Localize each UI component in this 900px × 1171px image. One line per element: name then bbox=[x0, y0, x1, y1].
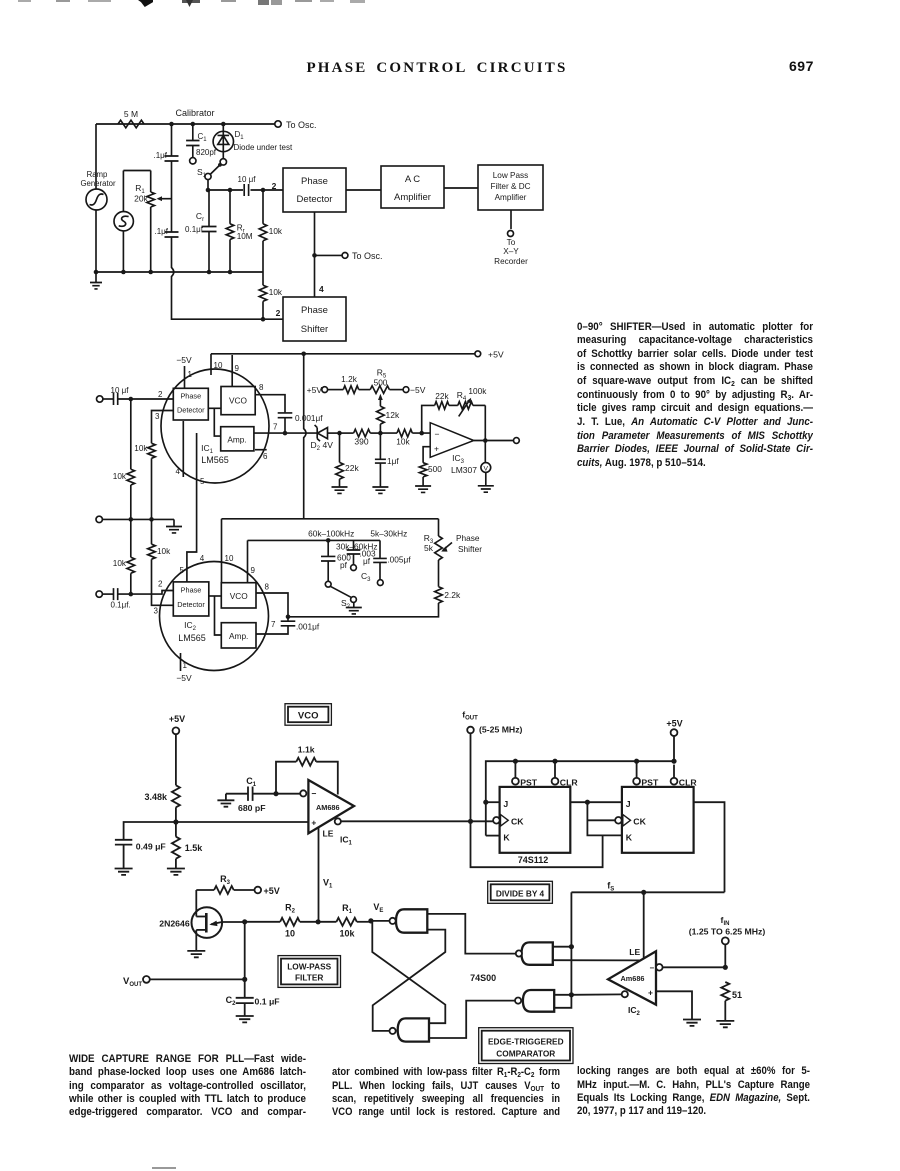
svg-text:−: − bbox=[435, 429, 440, 439]
ground (mid wire) bbox=[166, 519, 182, 533]
svg-text:74S112: 74S112 bbox=[518, 855, 549, 865]
svg-text:LM565: LM565 bbox=[201, 455, 229, 465]
svg-text:AM686: AM686 bbox=[316, 803, 340, 812]
svg-text:R2: R2 bbox=[285, 903, 296, 915]
wire + input to ground bbox=[656, 991, 701, 1026]
meter V bbox=[478, 441, 494, 493]
node rail junctions bbox=[513, 759, 518, 764]
node junction rail to IC2 supply bbox=[301, 352, 306, 357]
svg-text:6: 6 bbox=[263, 452, 268, 461]
svg-text:+: + bbox=[311, 818, 316, 828]
wire fs line bbox=[571, 891, 724, 893]
svg-text:D1: D1 bbox=[235, 130, 245, 141]
wire CK2 from vertical bbox=[587, 819, 614, 821]
node junction top rail at .1uf branch bbox=[169, 122, 174, 127]
terminal +5V (middle schematic) bbox=[475, 350, 504, 360]
gate G2 74S00 (bottom-left) bbox=[390, 1018, 430, 1041]
header: running title bbox=[0, 60, 887, 77]
svg-text:9: 9 bbox=[235, 364, 240, 373]
wire emitter to C2 bbox=[244, 922, 246, 998]
svg-text:LE: LE bbox=[323, 829, 334, 839]
svg-text:2: 2 bbox=[272, 181, 277, 191]
svg-text:22k: 22k bbox=[345, 463, 359, 473]
block Low Pass Filter & DC Amplifier bbox=[478, 165, 543, 210]
svg-text:Diode under test: Diode under test bbox=[234, 143, 293, 152]
label box DIVIDE BY 4 bbox=[488, 881, 553, 903]
op-amp U IC1 LM565 envelope circle bbox=[161, 369, 269, 483]
svg-text:10k: 10k bbox=[269, 288, 283, 297]
svg-text:2N2646: 2N2646 bbox=[159, 919, 190, 929]
wire comparator output to CK bbox=[341, 820, 493, 822]
wire J input FF1 bbox=[486, 801, 500, 803]
terminal input (lower channel) bbox=[96, 591, 102, 597]
svg-text:Generator: Generator bbox=[80, 179, 116, 188]
LE output bubble bbox=[335, 818, 341, 824]
svg-text:390: 390 bbox=[354, 437, 368, 447]
node junction top rail at C1 bbox=[191, 122, 196, 127]
svg-text:V1: V1 bbox=[323, 878, 333, 890]
resistor 3.48k bbox=[144, 734, 179, 822]
svg-text:Cr: Cr bbox=[196, 211, 204, 223]
caption column 2 bbox=[0, 0, 1, 1]
+ input bubble bbox=[622, 991, 628, 997]
capacitor 10uf coupling bbox=[238, 175, 257, 197]
block Phase Detector bbox=[283, 168, 346, 212]
wire G3 output to comparator bbox=[553, 959, 640, 961]
gate G4 74S00 (bottom-right) bbox=[515, 990, 554, 1012]
label box EDGE-TRIGGERED COMPARATOR bbox=[479, 1028, 573, 1064]
svg-text:−: − bbox=[312, 789, 317, 799]
svg-text:fS: fS bbox=[607, 881, 614, 893]
op-amp IC3 LM307 bbox=[430, 423, 477, 475]
svg-text:0.001μf: 0.001μf bbox=[295, 414, 323, 423]
svg-text:74S00: 74S00 bbox=[470, 973, 496, 983]
svg-text:VCO: VCO bbox=[229, 396, 248, 406]
svg-text:0.49 μF: 0.49 μF bbox=[136, 842, 166, 852]
capacitor .1uf (lower) bbox=[154, 227, 178, 237]
svg-text:1.5k: 1.5k bbox=[185, 843, 204, 853]
terminal input (upper channel) bbox=[97, 396, 103, 402]
svg-text:10k: 10k bbox=[113, 559, 127, 568]
svg-text:Ramp: Ramp bbox=[87, 170, 108, 179]
svg-text:20k: 20k bbox=[134, 194, 148, 204]
svg-text:CLR: CLR bbox=[679, 777, 698, 787]
svg-text:10k: 10k bbox=[157, 547, 171, 556]
svg-text:Low Pass: Low Pass bbox=[493, 171, 529, 180]
svg-text:D2: D2 bbox=[311, 440, 321, 452]
capacitor C1 820pf bbox=[186, 124, 217, 164]
svg-text:CK: CK bbox=[511, 816, 524, 826]
svg-text:10k: 10k bbox=[269, 227, 283, 236]
svg-text:.005μf: .005μf bbox=[387, 555, 411, 565]
flip-flop FF1 74S112 bbox=[493, 787, 570, 853]
svg-text:Phase: Phase bbox=[301, 176, 328, 187]
wire fin input bbox=[663, 966, 726, 968]
pin 8 wire IC2 bbox=[256, 583, 288, 617]
svg-text:+: + bbox=[648, 988, 653, 998]
block VCO (IC1) bbox=[221, 387, 255, 415]
node junction 10k top bbox=[261, 188, 266, 193]
svg-text:LE: LE bbox=[629, 947, 640, 957]
svg-text:VCO: VCO bbox=[298, 711, 319, 722]
resistor R3 to +5V bbox=[196, 874, 279, 896]
input bubble (latch input) bbox=[656, 964, 663, 971]
wire VE to G1 bbox=[371, 920, 390, 922]
wire calibrator branch down bbox=[171, 161, 173, 232]
svg-text:IC2: IC2 bbox=[184, 620, 197, 632]
wire input to IC1 pin 2 bbox=[118, 398, 174, 400]
svg-text:0.1 μF: 0.1 μF bbox=[255, 997, 280, 1007]
capacitor .001uf (IC2) bbox=[256, 617, 320, 634]
switch S2 bbox=[330, 586, 362, 614]
svg-text:4: 4 bbox=[200, 554, 205, 563]
svg-text:.001μf: .001μf bbox=[296, 622, 320, 632]
svg-text:1: 1 bbox=[188, 370, 193, 379]
node junction inverting input bbox=[419, 431, 424, 436]
svg-text:.1μf: .1μf bbox=[153, 151, 167, 160]
svg-text:2: 2 bbox=[158, 390, 163, 399]
wire S1 to phase detector input bbox=[208, 179, 283, 190]
wire to inverting input bubble bbox=[276, 793, 300, 795]
diode D1 (diode under test) bbox=[213, 124, 293, 165]
svg-text:Recorder: Recorder bbox=[494, 257, 528, 266]
node junction 10k2 bottom bbox=[261, 317, 266, 322]
node junction below S1 bbox=[206, 188, 211, 193]
resistor R1 10k bbox=[318, 903, 371, 939]
wire G4 bracket bbox=[554, 995, 571, 1008]
pin 9 wire IC2 bbox=[248, 540, 256, 582]
capacitor C2 0.1uF bbox=[226, 995, 280, 1022]
resistor 1.5k bbox=[167, 822, 203, 875]
svg-text:1μf: 1μf bbox=[387, 456, 399, 466]
node junction Q/K2 bbox=[585, 800, 590, 805]
wire +5V / -5V bias line bbox=[307, 385, 344, 395]
svg-text:Amp.: Amp. bbox=[229, 631, 248, 641]
terminal To Osc. (lower) bbox=[342, 251, 382, 261]
svg-text:A C: A C bbox=[405, 174, 420, 185]
svg-text:C1: C1 bbox=[246, 776, 257, 788]
op-amp U IC2 LM565 envelope circle bbox=[160, 562, 269, 671]
block A C Amplifier bbox=[381, 166, 444, 208]
svg-text:LM307: LM307 bbox=[451, 465, 477, 475]
svg-text:CLR: CLR bbox=[560, 777, 579, 787]
svg-text:10k: 10k bbox=[396, 437, 410, 447]
resistor 51 bbox=[716, 982, 742, 1027]
resistor 2.2k bbox=[288, 587, 461, 617]
svg-text:7: 7 bbox=[273, 423, 278, 432]
svg-text:1.2k: 1.2k bbox=[341, 374, 358, 384]
wire LPF to X-Y recorder terminal bbox=[510, 210, 512, 229]
node junction cap/pin7 bbox=[283, 431, 288, 436]
svg-text:K: K bbox=[503, 833, 510, 843]
svg-text:C1: C1 bbox=[198, 132, 208, 143]
terminal -5V bbox=[403, 385, 426, 395]
node junction pin8/2.2k bbox=[286, 615, 291, 620]
resistor 10k to op-amp bbox=[380, 429, 430, 446]
svg-text:IC2: IC2 bbox=[628, 1005, 641, 1017]
svg-text:10M: 10M bbox=[237, 232, 253, 241]
wire to + input of AM686 bbox=[176, 821, 309, 823]
svg-text:J: J bbox=[626, 799, 631, 809]
diode D2 4V zener bbox=[311, 425, 340, 452]
capacitor 600pf bbox=[321, 540, 351, 587]
pin 3 wire IC1 bbox=[152, 411, 174, 444]
svg-text:Shifter: Shifter bbox=[458, 544, 482, 554]
svg-text:4: 4 bbox=[176, 467, 181, 476]
ground (bus) bbox=[90, 272, 102, 289]
svg-text:1: 1 bbox=[183, 661, 188, 670]
svg-text:8: 8 bbox=[265, 583, 270, 592]
node junction fOUT/CK bbox=[468, 819, 473, 824]
capacitor 0.1uf input bbox=[102, 588, 130, 609]
node junction top rail at D1 bbox=[221, 122, 226, 127]
svg-text:8: 8 bbox=[259, 383, 264, 392]
resistor 22k to ground bbox=[332, 433, 360, 493]
node junction after D2 bbox=[337, 431, 342, 436]
caption column 1 bbox=[0, 0, 1, 1]
svg-text:S1: S1 bbox=[197, 167, 207, 179]
svg-text:X–Y: X–Y bbox=[503, 247, 519, 256]
svg-text:K: K bbox=[626, 833, 633, 843]
pin 8 wire + capacitor 0.001uf (IC1) bbox=[255, 383, 323, 433]
wire FF1 Q to FF2 J bbox=[570, 801, 622, 803]
pin 6 stub IC1 bbox=[255, 450, 268, 461]
svg-text:10: 10 bbox=[214, 361, 223, 370]
wire G1 output to G3 bbox=[427, 914, 516, 954]
svg-text:To: To bbox=[507, 238, 516, 247]
internal wire PD to VCO (IC2) bbox=[209, 595, 222, 597]
capacitor C1 680pF bbox=[217, 776, 276, 813]
wire fOUT drop and feedback bbox=[471, 733, 603, 867]
switch S1 bbox=[197, 163, 222, 180]
wire V1 from LE bbox=[318, 828, 320, 922]
svg-text:7: 7 bbox=[271, 620, 276, 629]
node junction divider bbox=[173, 819, 178, 824]
PST bubble FF2 bbox=[633, 761, 659, 787]
wire phase detector to AC amplifier bbox=[346, 189, 381, 191]
terminal +5V (flip-flops) bbox=[666, 719, 682, 762]
svg-text:FILTER: FILTER bbox=[295, 973, 323, 983]
transistor Q1 2N2646 UJT bbox=[159, 890, 222, 938]
wire G3 upper stub bbox=[553, 946, 572, 948]
svg-text:COMPARATOR: COMPARATOR bbox=[496, 1048, 555, 1058]
wire K2 coupling bbox=[587, 802, 622, 835]
svg-text:R1: R1 bbox=[342, 903, 353, 915]
svg-text:PST: PST bbox=[520, 777, 538, 787]
node junction G3/fs bbox=[569, 944, 574, 949]
node junction 600pf branch bbox=[326, 538, 331, 543]
svg-text:Detector: Detector bbox=[177, 406, 205, 415]
label box VCO bbox=[285, 704, 331, 726]
svg-text:2.2k: 2.2k bbox=[444, 590, 461, 600]
wire G1 lower to G2 bubble (cross-couple) bbox=[373, 930, 446, 1031]
svg-text:3.48k: 3.48k bbox=[144, 792, 168, 802]
sweep source (S) bbox=[114, 171, 133, 273]
wire frequency select line bbox=[248, 539, 381, 541]
internal wire PD to Amp (IC2) bbox=[215, 596, 222, 635]
terminal To X-Y Recorder bbox=[494, 231, 528, 267]
svg-text:5k–30kHz: 5k–30kHz bbox=[370, 529, 407, 539]
svg-text:−5V: −5V bbox=[176, 673, 192, 683]
scan artifact marks top edge bbox=[18, 0, 31, 2]
wire non-inverting input bbox=[423, 447, 430, 463]
gate G1 74S00 (top-left) bbox=[390, 909, 428, 932]
op-amp IC1 AM686 comparator bbox=[300, 780, 354, 833]
svg-text:To Osc.: To Osc. bbox=[352, 251, 383, 261]
ground (UJT B1) bbox=[187, 930, 205, 957]
resistor Rr 10M bbox=[226, 190, 253, 272]
CLR bubble FF2 bbox=[671, 765, 698, 788]
capacitor .005uf bbox=[373, 540, 411, 585]
node junction G4/fs bbox=[569, 992, 574, 997]
wire IC2 supply drop bbox=[304, 354, 306, 519]
wire K input FF1 bbox=[486, 835, 500, 837]
capacitor 0.49uF bbox=[115, 822, 176, 875]
svg-text:Am686: Am686 bbox=[621, 974, 645, 983]
potentiometer R1 20k bbox=[134, 171, 171, 273]
flip-flop FF2 74S112 bbox=[615, 787, 694, 853]
terminal output bbox=[514, 438, 520, 444]
op-amp IC2 Am686 comparator (points left) bbox=[608, 951, 656, 1004]
gate G3 74S00 (top-right) bbox=[516, 942, 553, 964]
terminal To Osc. (top) bbox=[275, 120, 317, 130]
svg-text:V: V bbox=[484, 466, 489, 473]
svg-text:100k: 100k bbox=[468, 386, 487, 396]
header: page number 697 bbox=[789, 58, 814, 74]
pin 10 wire IC2 bbox=[222, 519, 234, 583]
wire PST/CLR rail bbox=[486, 761, 674, 835]
wire feedback down bbox=[484, 405, 486, 440]
svg-text:IC3: IC3 bbox=[452, 453, 465, 465]
wire output bbox=[474, 440, 513, 442]
node junction feedback/output bbox=[483, 438, 488, 443]
resistor 500 to ground bbox=[415, 463, 442, 493]
svg-text:2: 2 bbox=[276, 308, 281, 318]
svg-text:12k: 12k bbox=[386, 410, 400, 420]
svg-text:Amplifier: Amplifier bbox=[394, 192, 431, 203]
node junction C1/feedback bbox=[273, 791, 278, 796]
pin 4 stub IC1 bbox=[176, 421, 184, 477]
wire FF2 output to fs bbox=[694, 802, 725, 892]
svg-text:CK: CK bbox=[633, 816, 646, 826]
block phase detector (IC2) bbox=[173, 582, 209, 616]
capacitor .003uf C3 bbox=[347, 540, 376, 583]
svg-text:680 pF: 680 pF bbox=[238, 803, 266, 813]
internal wire PD to VCO bbox=[208, 407, 220, 409]
svg-text:Detector: Detector bbox=[297, 194, 333, 205]
resistor 22k feedback bbox=[422, 391, 450, 433]
svg-text:22k: 22k bbox=[435, 391, 449, 401]
svg-text:500: 500 bbox=[428, 464, 442, 474]
node junction VE bbox=[368, 918, 373, 923]
svg-text:−: − bbox=[649, 964, 654, 973]
terminal fOUT bbox=[462, 710, 522, 735]
svg-text:pf: pf bbox=[340, 560, 348, 570]
resistor R2 10 bbox=[280, 903, 318, 939]
svg-text:−5V: −5V bbox=[410, 385, 426, 395]
svg-text:500: 500 bbox=[374, 378, 388, 388]
svg-text:J: J bbox=[503, 799, 508, 809]
terminal VOUT bbox=[123, 976, 150, 988]
svg-text:Amplifier: Amplifier bbox=[495, 193, 527, 202]
svg-text:3: 3 bbox=[154, 607, 159, 616]
svg-text:fOUT: fOUT bbox=[462, 710, 478, 722]
svg-text:Phase: Phase bbox=[180, 392, 201, 401]
resistor 10k pin2 upper bbox=[113, 399, 135, 519]
wire emitter line bbox=[222, 921, 280, 923]
wire VOUT bbox=[150, 978, 245, 980]
terminal +5V (VCO bias) bbox=[169, 714, 185, 734]
wire ground bus bbox=[96, 271, 263, 273]
label box LOW-PASS FILTER bbox=[278, 956, 341, 988]
scan artifact bottom edge bbox=[152, 1167, 176, 1169]
node junction V1 bbox=[316, 919, 321, 924]
svg-text:IC1: IC1 bbox=[340, 835, 353, 847]
capacitor 10uf input bbox=[103, 386, 129, 405]
resistor 10k (x151 lower) bbox=[148, 519, 174, 605]
svg-text:Shifter: Shifter bbox=[301, 324, 328, 335]
svg-text:+: + bbox=[434, 444, 439, 454]
potentiometer R4 100k bbox=[449, 386, 487, 416]
svg-text:DIVIDE BY 4: DIVIDE BY 4 bbox=[496, 888, 545, 898]
wire +5V top rail bbox=[211, 353, 475, 355]
wire input to IC2 pin 2 bbox=[118, 591, 174, 595]
svg-text:VOUT: VOUT bbox=[123, 976, 142, 988]
svg-text:10: 10 bbox=[225, 554, 234, 563]
svg-text:R3: R3 bbox=[220, 874, 231, 886]
pin 9 stub IC1 bbox=[232, 355, 239, 387]
svg-text:Phase: Phase bbox=[456, 533, 480, 543]
node junction input/10k bbox=[129, 397, 134, 402]
svg-text:Phase: Phase bbox=[301, 305, 328, 316]
wire VE to G2 upper input (cross-couple) bbox=[371, 921, 445, 1023]
resistor 10k (lower) bbox=[259, 272, 283, 319]
wire sweep to R1 top bbox=[123, 170, 150, 172]
node bus junctions bbox=[94, 270, 99, 275]
resistor 390 bbox=[340, 429, 381, 446]
svg-text:5: 5 bbox=[200, 477, 205, 486]
resistor 10k (x130 lower) bbox=[113, 519, 135, 594]
capacitor Cr 0.1uf bbox=[185, 190, 216, 272]
svg-text:−5V: −5V bbox=[176, 355, 192, 365]
svg-text:Calibrator: Calibrator bbox=[175, 108, 214, 118]
wire lower common bbox=[102, 518, 174, 520]
svg-text:LM565: LM565 bbox=[178, 633, 206, 643]
pin 1 -5V stub IC2 bbox=[176, 653, 192, 683]
svg-text:EDGE-TRIGGERED: EDGE-TRIGGERED bbox=[488, 1036, 564, 1046]
svg-text:10k: 10k bbox=[134, 444, 148, 453]
terminal input mid-left bbox=[96, 516, 102, 522]
svg-text:IC1: IC1 bbox=[201, 443, 214, 455]
resistor 5M bbox=[118, 109, 144, 128]
svg-text:5 M: 5 M bbox=[124, 109, 138, 119]
potentiometer R3 5k phase shift bbox=[424, 519, 452, 587]
block Amp (IC1) bbox=[221, 427, 254, 451]
caption column 3 bbox=[0, 0, 1, 1]
block Amp (IC2) bbox=[221, 623, 256, 648]
svg-text:10k: 10k bbox=[113, 472, 127, 481]
svg-text:Amp.: Amp. bbox=[227, 435, 246, 445]
wire +5V horizontal distribution bbox=[222, 518, 439, 520]
wire top rail to To Osc. bbox=[96, 123, 275, 125]
node junction fin/51 bbox=[723, 965, 728, 970]
svg-text:10: 10 bbox=[285, 929, 295, 939]
svg-text:PST: PST bbox=[641, 777, 659, 787]
svg-text:5: 5 bbox=[180, 566, 185, 575]
capacitor 1uf to ground bbox=[372, 433, 399, 493]
svg-text:fIN: fIN bbox=[721, 915, 730, 927]
node junction J input bbox=[483, 800, 488, 805]
